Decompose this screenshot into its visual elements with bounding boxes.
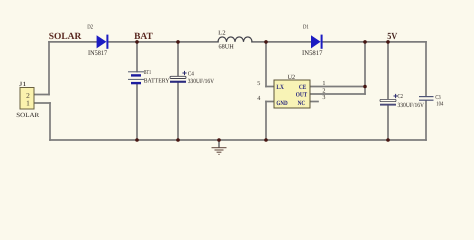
wire OUT pin 2	[310, 93, 365, 95]
junction battery bottom	[135, 138, 139, 142]
wire J1 pin1 stub	[34, 102, 50, 104]
svg-text:NC: NC	[298, 100, 306, 107]
svg-text:SOLAR: SOLAR	[49, 32, 82, 42]
wire battery branch lower	[136, 84, 138, 140]
junction 5V/C2 top	[386, 40, 390, 44]
svg-text:D2: D2	[87, 25, 93, 31]
svg-text:GND: GND	[276, 100, 288, 107]
ground	[212, 148, 227, 155]
svg-text:D1: D1	[303, 25, 309, 31]
wire top rail L2-to-D1 segment	[252, 41, 312, 43]
sheet background	[0, 0, 474, 171]
svg-text:330UF/16V: 330UF/16V	[398, 102, 425, 109]
svg-text:LX: LX	[276, 84, 284, 91]
svg-text:5: 5	[257, 80, 260, 87]
wire right vertical upper (to C3)	[425, 42, 427, 96]
wire LX pin stub	[266, 86, 274, 88]
wire feedback vertical	[364, 42, 366, 94]
junction LX top	[264, 40, 268, 44]
wire ground stub	[218, 140, 220, 147]
svg-text:IN5817: IN5817	[302, 50, 323, 57]
capacitor C3	[419, 97, 434, 101]
op-amp U2 body	[274, 80, 310, 108]
wire C2 branch lower	[387, 105, 389, 140]
capacitor C4	[170, 71, 187, 83]
connector J1 body	[20, 88, 34, 110]
svg-text:68UH: 68UH	[219, 43, 235, 50]
wire top rail BAT segment	[109, 41, 219, 43]
wire GND branch vertical	[265, 102, 267, 141]
svg-text:BATTERY: BATTERY	[144, 77, 170, 84]
svg-text:CE: CE	[299, 84, 307, 91]
svg-text:5V: 5V	[387, 32, 397, 42]
svg-text:4: 4	[257, 95, 260, 102]
svg-text:J1: J1	[19, 81, 27, 88]
wire CE pin 1	[310, 86, 365, 88]
capacitor C2	[380, 94, 398, 106]
wire LX branch vertical	[265, 42, 267, 87]
wire NC pin 3 stub	[310, 101, 318, 103]
svg-text:1: 1	[322, 80, 325, 87]
wire top rail 5V segment	[323, 41, 427, 43]
junction CE/OUT feedback	[363, 85, 367, 89]
svg-text:330UF/16V: 330UF/16V	[188, 78, 215, 85]
diode D1	[311, 35, 323, 49]
wire battery branch upper	[136, 42, 138, 72]
junction C2 bottom	[386, 138, 390, 142]
svg-text:104: 104	[436, 101, 443, 107]
svg-text:U2: U2	[288, 74, 296, 81]
svg-text:C2: C2	[398, 94, 404, 100]
diode D2	[97, 35, 109, 49]
svg-text:L2: L2	[218, 30, 226, 36]
wire top rail left segment (SOLAR)	[49, 41, 97, 43]
wire right vertical lower (from C3)	[425, 101, 427, 140]
junction ground	[217, 138, 221, 142]
svg-text:BAT: BAT	[134, 32, 153, 42]
svg-text:BT1: BT1	[144, 70, 151, 76]
svg-text:C3: C3	[435, 95, 440, 101]
wire J1 pin2 stub	[34, 94, 49, 96]
wire C4 branch upper	[177, 42, 179, 76]
wire bottom rail	[50, 139, 426, 141]
svg-text:SOLAR: SOLAR	[16, 112, 40, 119]
wire C2 branch upper	[387, 42, 389, 100]
wire C4 branch lower	[177, 83, 179, 140]
battery BT1	[128, 72, 144, 83]
junction C4 top	[176, 40, 180, 44]
junction BAT/battery top	[135, 40, 139, 44]
svg-text:OUT: OUT	[296, 92, 308, 99]
inductor L2	[218, 37, 252, 42]
svg-text:IN5817: IN5817	[88, 50, 108, 57]
wire left vertical down from J1 pin1	[49, 103, 51, 140]
svg-text:1: 1	[26, 98, 30, 107]
wire GND pin stub	[266, 101, 274, 103]
junction feedback top	[363, 40, 367, 44]
wire left vertical up from J1 pin2	[48, 42, 50, 95]
junction C4 bottom	[176, 138, 180, 142]
svg-text:3: 3	[322, 94, 325, 101]
svg-text:C4: C4	[188, 71, 194, 77]
junction GND bottom	[264, 138, 268, 142]
